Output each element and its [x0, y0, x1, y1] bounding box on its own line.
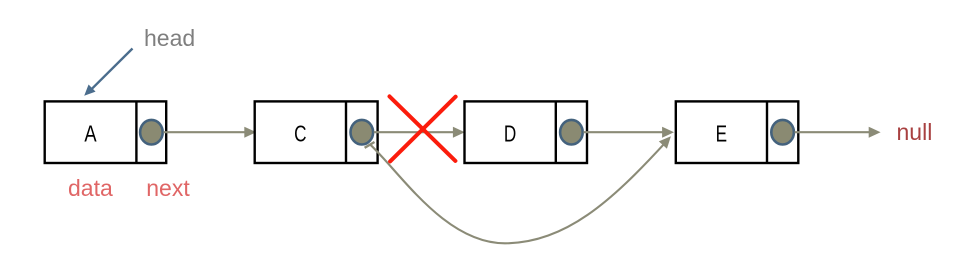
svg-text:E: E	[716, 121, 727, 147]
node E next pointer circle	[771, 120, 794, 145]
arrow head-pointer (blue)	[81, 49, 133, 100]
node A box	[45, 101, 167, 163]
node E divider	[766, 101, 768, 163]
arrow C to D (deleted link)	[374, 127, 465, 138]
curved arrow head	[659, 133, 675, 149]
node C divider	[345, 101, 347, 163]
svg-text:A: A	[84, 122, 96, 148]
svg-text:D: D	[504, 121, 516, 147]
svg-text:null: null	[897, 119, 933, 145]
svg-text:C: C	[294, 121, 307, 147]
node D next pointer circle	[560, 120, 583, 145]
arrow A to C	[163, 127, 256, 138]
node A next pointer circle	[140, 120, 163, 145]
node C next pointer circle	[351, 120, 374, 145]
node E box	[676, 101, 799, 163]
curved arrow C to E (new link)	[365, 133, 675, 244]
node D box	[465, 101, 588, 163]
curved arrow tail bar	[365, 142, 375, 148]
svg-text:data: data	[68, 175, 113, 201]
svg-text:head: head	[144, 25, 195, 51]
arrow E to null	[795, 127, 881, 138]
red X deletion mark	[390, 96, 456, 161]
arrow D to E	[583, 127, 674, 138]
node C box	[255, 101, 378, 163]
node A divider	[135, 101, 137, 163]
node D divider	[555, 101, 557, 163]
svg-text:next: next	[146, 175, 190, 201]
